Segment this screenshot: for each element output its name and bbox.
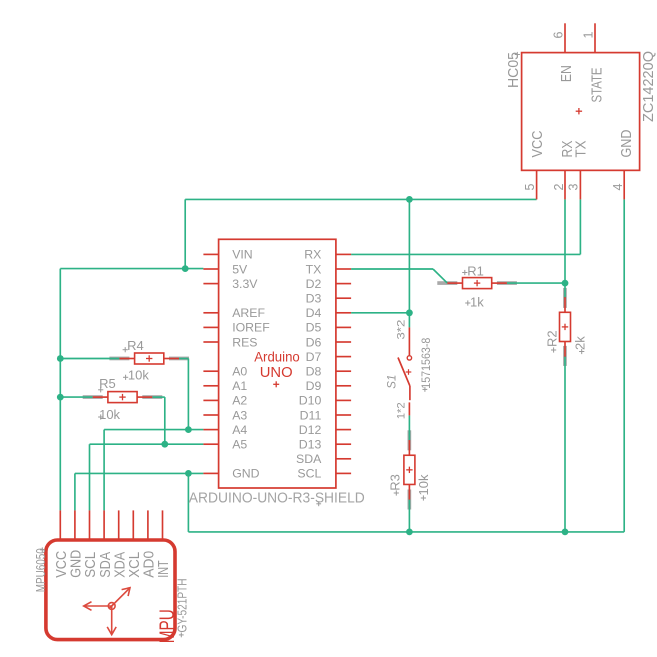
- svg-text:XDA: XDA: [112, 551, 128, 577]
- svg-text:5V: 5V: [232, 262, 248, 276]
- svg-text:SDA: SDA: [98, 551, 114, 577]
- svg-text:D9: D9: [306, 379, 322, 393]
- svg-text:D8: D8: [306, 365, 322, 379]
- svg-text:1571563-8: 1571563-8: [419, 337, 433, 388]
- svg-text:SDA: SDA: [296, 452, 322, 466]
- svg-text:SCL: SCL: [297, 467, 321, 481]
- svg-text:R2: R2: [545, 330, 560, 347]
- svg-text:R3: R3: [388, 474, 403, 491]
- svg-text:3*2: 3*2: [395, 320, 407, 340]
- svg-text:ZC14220Q: ZC14220Q: [641, 51, 657, 122]
- svg-text:D12: D12: [299, 423, 322, 437]
- svg-text:D10: D10: [299, 394, 322, 408]
- svg-text:RES: RES: [232, 335, 257, 349]
- svg-text:A0: A0: [232, 365, 247, 379]
- svg-text:1*2: 1*2: [395, 402, 407, 419]
- svg-text:GND: GND: [232, 467, 259, 481]
- svg-text:A5: A5: [232, 438, 247, 452]
- svg-text:A4: A4: [232, 423, 247, 437]
- svg-text:A1: A1: [232, 379, 247, 393]
- svg-text:D2: D2: [306, 277, 322, 291]
- svg-text:VCC: VCC: [530, 131, 546, 158]
- svg-text:A3: A3: [232, 408, 247, 422]
- svg-text:D13: D13: [299, 438, 322, 452]
- svg-text:10k: 10k: [99, 407, 120, 422]
- svg-text:A2: A2: [232, 394, 247, 408]
- svg-text:5: 5: [523, 184, 537, 191]
- svg-text:3: 3: [567, 184, 581, 191]
- svg-text:1k: 1k: [470, 294, 484, 309]
- svg-text:ARDUINO-UNO-R3-SHIELD: ARDUINO-UNO-R3-SHIELD: [189, 491, 365, 507]
- svg-text:INT: INT: [156, 560, 172, 578]
- svg-text:AREF: AREF: [232, 306, 265, 320]
- svg-text:Arduino: Arduino: [254, 350, 300, 366]
- svg-text:VCC: VCC: [54, 551, 70, 578]
- svg-text:1: 1: [582, 32, 596, 39]
- svg-text:MPU6050: MPU6050: [33, 548, 48, 592]
- svg-text:UNO: UNO: [260, 365, 293, 381]
- svg-text:D7: D7: [306, 350, 322, 364]
- svg-text:AD0: AD0: [142, 551, 158, 578]
- svg-text:GND: GND: [619, 130, 635, 158]
- svg-text:TX: TX: [573, 140, 589, 157]
- svg-text:SCL: SCL: [83, 552, 99, 578]
- svg-text:D3: D3: [306, 292, 322, 306]
- svg-text:10k: 10k: [128, 368, 149, 383]
- svg-text:IOREF: IOREF: [232, 321, 270, 335]
- svg-text:D4: D4: [306, 306, 322, 320]
- svg-text:D5: D5: [306, 321, 322, 335]
- svg-text:EN: EN: [559, 65, 575, 82]
- svg-text:2: 2: [552, 184, 566, 191]
- svg-text:VIN: VIN: [232, 248, 253, 262]
- svg-text:4: 4: [611, 184, 625, 191]
- svg-text:XCL: XCL: [127, 552, 143, 578]
- svg-text:RX: RX: [304, 248, 321, 262]
- svg-text:MPU: MPU: [156, 609, 179, 643]
- svg-text:10k: 10k: [416, 474, 431, 495]
- svg-text:GND: GND: [69, 550, 85, 578]
- svg-text:D6: D6: [306, 335, 322, 349]
- svg-text:D11: D11: [300, 408, 322, 422]
- svg-text:R1: R1: [467, 264, 484, 279]
- svg-text:S1: S1: [386, 375, 398, 389]
- svg-text:R5: R5: [99, 376, 116, 391]
- svg-text:R4: R4: [127, 338, 144, 353]
- svg-text:2k: 2k: [573, 336, 588, 350]
- svg-text:HC05: HC05: [506, 52, 522, 88]
- svg-text:3.3V: 3.3V: [232, 277, 258, 291]
- svg-text:STATE: STATE: [590, 68, 606, 103]
- svg-text:TX: TX: [306, 262, 322, 276]
- svg-text:6: 6: [552, 32, 566, 39]
